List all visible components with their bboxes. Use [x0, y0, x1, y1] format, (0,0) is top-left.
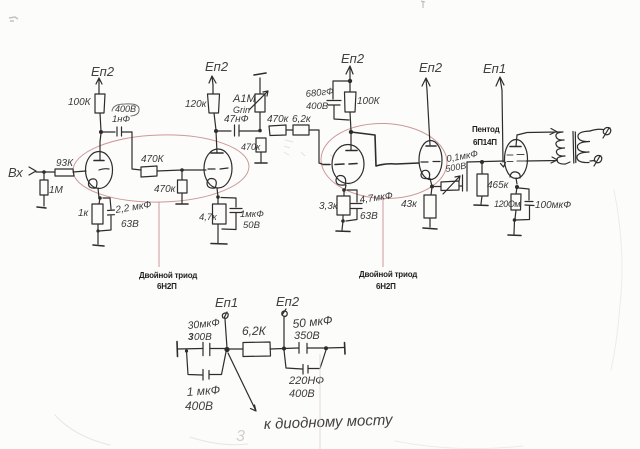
svg-text:6,2К: 6,2К	[242, 324, 267, 338]
wire Еп2 to T4 anode	[427, 90, 430, 145]
svg-text:93К: 93К	[56, 158, 74, 169]
T4 cathode lead	[430, 179, 432, 187]
pentode screen dashes	[507, 160, 525, 163]
node (1мкФ tap)	[185, 349, 188, 352]
transformer primary winding	[556, 132, 570, 164]
T2 grid dashes	[208, 168, 228, 169]
node Еп2 stage3	[348, 79, 352, 83]
T4 grid dashes	[421, 161, 440, 164]
resistor 93К	[55, 169, 74, 176]
resistor 1M	[40, 172, 48, 206]
svg-text:Еп2: Еп2	[419, 60, 443, 75]
T4 anode bar	[426, 145, 436, 147]
faint pencil arcs bottom	[55, 415, 248, 445]
pink leader line to second tube label	[382, 198, 384, 267]
resistor 4,7к (T2 cathode)	[213, 197, 227, 243]
pentode U1 envelope	[505, 140, 528, 179]
ground (43к)	[423, 228, 437, 229]
T1 anode bar	[94, 160, 104, 162]
svg-text:Еп1: Еп1	[215, 295, 238, 310]
node 220нФ tap	[324, 346, 328, 350]
paper smudge top-left	[9, 17, 18, 21]
svg-text:6Н2П: 6Н2П	[157, 282, 177, 291]
resistor 120Ом (pentode cathode)	[511, 187, 521, 219]
resistor 100К (stage 3)	[345, 81, 357, 131]
svg-text:400В: 400В	[115, 104, 136, 114]
arrow to diode bridge	[228, 353, 256, 411]
wire 6,2к to T3 grid	[309, 130, 322, 164]
paper mark top edge	[421, 1, 425, 8]
svg-text:400В: 400В	[289, 388, 315, 400]
node pentode cathode	[515, 185, 519, 189]
capacitor 1мкФ 50В (T2 bypass)	[221, 198, 242, 230]
wire 93К to T1 grid	[73, 171, 86, 172]
node T3 cathode	[342, 188, 346, 192]
transformer core	[573, 132, 576, 164]
output terminal bottom	[594, 156, 602, 167]
svg-text:3: 3	[236, 428, 245, 445]
wire anode to transformer primary	[517, 129, 557, 136]
svg-text:63В: 63В	[121, 219, 139, 230]
resistor 470К (horizontal, to T2 grid)	[141, 166, 157, 177]
svg-text:465к: 465к	[487, 180, 510, 191]
triode T2 (6Н2П b) envelope	[204, 149, 232, 188]
capacitor 30мкФ 300В	[203, 342, 225, 355]
T2 anode bar	[211, 152, 223, 154]
ground (465к)	[474, 204, 488, 207]
svg-text:120к: 120к	[185, 99, 208, 110]
svg-text:1нФ: 1нФ	[112, 114, 131, 125]
ground (input)	[37, 207, 46, 208]
capacitor 680пФ 400В (parallel 100К)	[327, 81, 350, 120]
output terminal top	[603, 128, 611, 139]
node A (input)	[42, 170, 46, 174]
svg-text:220НФ: 220НФ	[288, 375, 324, 387]
trimmer (variable resistor) at T4 output	[433, 181, 459, 191]
wire to pentode grid	[467, 161, 504, 162]
pentode cathode lead	[516, 178, 517, 184]
T3 anode lead	[350, 133, 352, 150]
PSU wire right	[326, 347, 344, 350]
PSU wire left	[177, 348, 202, 351]
capacitor 0,1мкФ 500В (coupling to pentode)	[459, 162, 467, 191]
T1 cathode loop	[88, 179, 96, 188]
svg-text:350В: 350В	[294, 330, 320, 342]
secondary output wire top	[590, 129, 603, 131]
svg-text:А1М: А1М	[232, 93, 256, 105]
faint paper crease right	[611, 190, 622, 370]
T3 grid dashes	[323, 164, 357, 165]
ground (T2 cathode)	[211, 243, 227, 246]
wire T3 anode to T4 grid	[351, 132, 419, 166]
node below 3,3к	[341, 219, 345, 223]
svg-text:6П14П: 6П14П	[473, 138, 497, 147]
node 465к	[480, 160, 484, 164]
resistor 100К (stage 1)	[95, 84, 105, 131]
node pot top	[258, 129, 262, 133]
node T2 cathode	[216, 195, 220, 199]
wire coupling down	[132, 132, 141, 170]
capacitor 1нФ with circled 400В note	[101, 127, 132, 136]
pink leader line to first tube label	[158, 202, 160, 268]
capacitor 220нФ 400В	[284, 350, 326, 374]
transformer secondary winding	[577, 131, 590, 163]
wire input to node	[36, 171, 55, 173]
ground (pentode cathode)	[513, 220, 516, 234]
svg-text:100мкФ: 100мкФ	[535, 200, 571, 211]
node Еп1 rail	[224, 347, 229, 352]
svg-text:Еп2: Еп2	[276, 294, 300, 309]
triode T4 (6Н2П b) envelope	[419, 141, 442, 180]
svg-text:6Н2П: 6Н2П	[376, 282, 396, 291]
svg-text:400В: 400В	[185, 399, 213, 413]
svg-text:4,7к: 4,7к	[199, 212, 217, 223]
pentode anode bar	[510, 146, 521, 148]
input chevron	[29, 167, 36, 175]
svg-text:1к: 1к	[78, 208, 90, 219]
svg-text:1М: 1М	[49, 185, 64, 196]
triode T1 (6Н2П a) envelope	[86, 152, 113, 189]
node T2 grid	[180, 168, 184, 172]
node cathode bottom	[513, 218, 517, 222]
node T1 cathode	[98, 196, 102, 200]
svg-text:00В: 00В	[194, 332, 212, 343]
svg-text:Grin: Grin	[233, 105, 250, 115]
svg-text:6,2к: 6,2к	[292, 114, 312, 125]
node T2 anode	[214, 129, 218, 133]
resistor 465к (pentode grid leak)	[477, 162, 488, 204]
T2 cathode loop	[207, 179, 216, 189]
node T1 anode / coupling	[99, 130, 103, 134]
svg-text:100К: 100К	[357, 96, 381, 107]
ground (T2 grid leak)	[176, 203, 188, 205]
svg-text:Двойной триод: Двойной триод	[359, 270, 417, 279]
T2 anode lead	[216, 131, 217, 153]
T2 cathode lead	[217, 188, 218, 197]
PSU right terminal bar	[344, 343, 347, 355]
wire screen to transformer primary bottom	[526, 157, 558, 163]
capacitor 100мкФ (cathode bypass)	[516, 188, 534, 220]
faint pencil scribbles	[284, 140, 351, 193]
T3 anode bar	[346, 150, 357, 152]
pentode grid dashes	[507, 154, 524, 157]
pentode anode lead	[516, 135, 517, 146]
wire Еп1 down to pentode screen	[501, 90, 506, 167]
svg-text:Еп2: Еп2	[341, 51, 365, 66]
node T3 anode	[349, 130, 353, 134]
capacitor 4,7мкФ 63В (T3 bypass)	[346, 190, 362, 221]
T1 cathode lead	[98, 188, 99, 198]
resistor 1к (T1 cathode)	[92, 198, 103, 244]
node Еп2 rail	[282, 347, 286, 351]
ellipse around second dual triode (pink)	[320, 121, 449, 200]
svg-text:1 мкФ: 1 мкФ	[186, 383, 221, 399]
T3 cathode lead	[345, 185, 346, 190]
resistor 470к (horizontal, stage 3 input)	[269, 125, 286, 136]
svg-text:Пентод: Пентод	[472, 125, 500, 134]
svg-text:Еп2: Еп2	[205, 59, 229, 74]
wire to T2 grid node	[157, 170, 182, 171]
svg-text:Еп2: Еп2	[91, 64, 115, 79]
node T4 cathode	[430, 185, 434, 189]
PSU left terminal bar	[176, 342, 179, 357]
faint fold line bottom center	[319, 354, 321, 449]
resistor 6,2к	[286, 125, 309, 135]
svg-text:63В: 63В	[360, 211, 378, 222]
resistor 470к (grid leak T2)	[178, 170, 188, 203]
T4 cathode loop	[421, 170, 430, 178]
T3 cathode loop	[336, 176, 346, 186]
svg-text:Вх: Вх	[8, 165, 23, 180]
wire into T2 grid	[182, 169, 206, 171]
ground (T1 cathode)	[93, 245, 104, 246]
capacitor 50мкФ 350В	[284, 343, 324, 354]
secondary output wire bottom	[590, 160, 595, 163]
triode T3 (6Н2П a) envelope	[332, 145, 364, 184]
ground (pot divider)	[255, 162, 267, 164]
svg-text:Двойной триод: Двойной триод	[139, 271, 197, 280]
svg-text:120Ом: 120Ом	[494, 199, 520, 209]
svg-text:43к: 43к	[401, 199, 418, 210]
svg-text:47нФ: 47нФ	[224, 114, 249, 125]
svg-text:50В: 50В	[243, 220, 261, 231]
resistor 43к (T4 cathode)	[424, 187, 436, 227]
capacitor 2,2мкФ 63В (T1 bypass)	[99, 198, 115, 231]
resistor 3,3к (T3 cathode)	[337, 190, 350, 221]
svg-text:3,3к: 3,3к	[319, 201, 339, 212]
svg-text:470к: 470к	[241, 142, 261, 152]
potentiometer А1М (Gain)	[255, 78, 265, 130]
resistor 120к	[208, 85, 220, 130]
ground (T3 cathode)	[342, 221, 343, 230]
svg-text:Еп1: Еп1	[483, 61, 506, 76]
resistor 470к (below pot)	[256, 138, 266, 162]
pentode cathode arc	[510, 172, 520, 178]
T1 anode lead	[100, 133, 101, 160]
svg-text:100К: 100К	[68, 97, 92, 108]
svg-text:400В: 400В	[306, 101, 329, 112]
T1 grid dash	[99, 169, 109, 170]
capacitor 1мкФ 400В	[187, 351, 227, 380]
svg-text:470К: 470К	[141, 154, 165, 165]
svg-text:1мкФ: 1мкФ	[240, 209, 264, 220]
capacitor 47нФ (coupling)	[216, 125, 258, 136]
resistor 6,2К (filter)	[227, 342, 284, 357]
ellipse around first dual triode (pink)	[72, 133, 250, 205]
svg-text:470к: 470к	[267, 114, 290, 125]
svg-text:470к: 470к	[154, 184, 177, 195]
